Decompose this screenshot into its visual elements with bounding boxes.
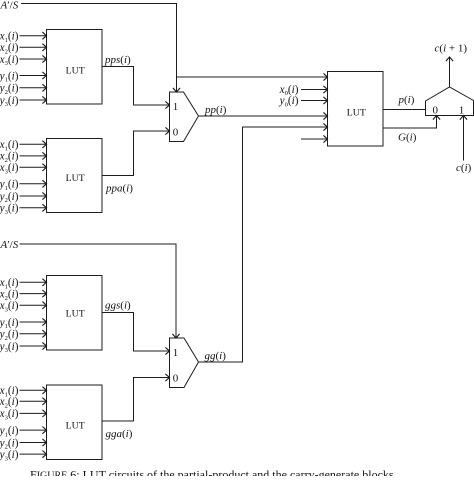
svg-text:0: 0 xyxy=(433,105,439,117)
svg-text:y1(i): y1(i) xyxy=(0,425,19,438)
svg-text:FIGURE 6: LUT circuits of the: FIGURE 6: LUT circuits of the partial-pr… xyxy=(30,468,397,477)
svg-text:x3(i): x3(i) xyxy=(0,162,19,175)
svg-text:1: 1 xyxy=(173,101,179,113)
svg-text:LUT: LUT xyxy=(66,66,85,77)
svg-text:LUT: LUT xyxy=(66,309,85,320)
svg-text:0: 0 xyxy=(173,127,179,139)
svg-text:y3(i): y3(i) xyxy=(0,95,19,108)
svg-text:1: 1 xyxy=(459,105,465,117)
svg-text:LUT: LUT xyxy=(66,421,85,432)
svg-text:x3(i): x3(i) xyxy=(0,54,19,67)
svg-text:y3(i): y3(i) xyxy=(0,341,19,354)
svg-text:G(i): G(i) xyxy=(398,132,417,144)
svg-text:A′/S: A′/S xyxy=(0,0,19,12)
svg-text:ppa(i): ppa(i) xyxy=(105,183,133,195)
svg-text:pp(i): pp(i) xyxy=(204,104,227,116)
svg-text:p(i): p(i) xyxy=(398,94,415,106)
svg-text:LUT: LUT xyxy=(347,108,366,119)
svg-text:x3(i): x3(i) xyxy=(0,300,19,313)
svg-text:y3(i): y3(i) xyxy=(0,449,19,462)
svg-text:c(i + 1): c(i + 1) xyxy=(435,43,468,55)
svg-text:c(i): c(i) xyxy=(456,162,472,174)
svg-text:gg(i): gg(i) xyxy=(205,350,227,362)
svg-text:A′/S: A′/S xyxy=(0,239,19,251)
svg-text:0: 0 xyxy=(173,373,179,385)
svg-text:LUT: LUT xyxy=(66,173,85,184)
svg-text:y0(i): y0(i) xyxy=(279,95,299,108)
svg-text:gga(i): gga(i) xyxy=(106,428,133,440)
svg-text:x3(i): x3(i) xyxy=(0,408,19,421)
svg-text:1: 1 xyxy=(173,347,179,359)
svg-text:ggs(i): ggs(i) xyxy=(105,300,131,312)
svg-text:pps(i): pps(i) xyxy=(104,54,131,66)
svg-text:y3(i): y3(i) xyxy=(0,203,19,216)
